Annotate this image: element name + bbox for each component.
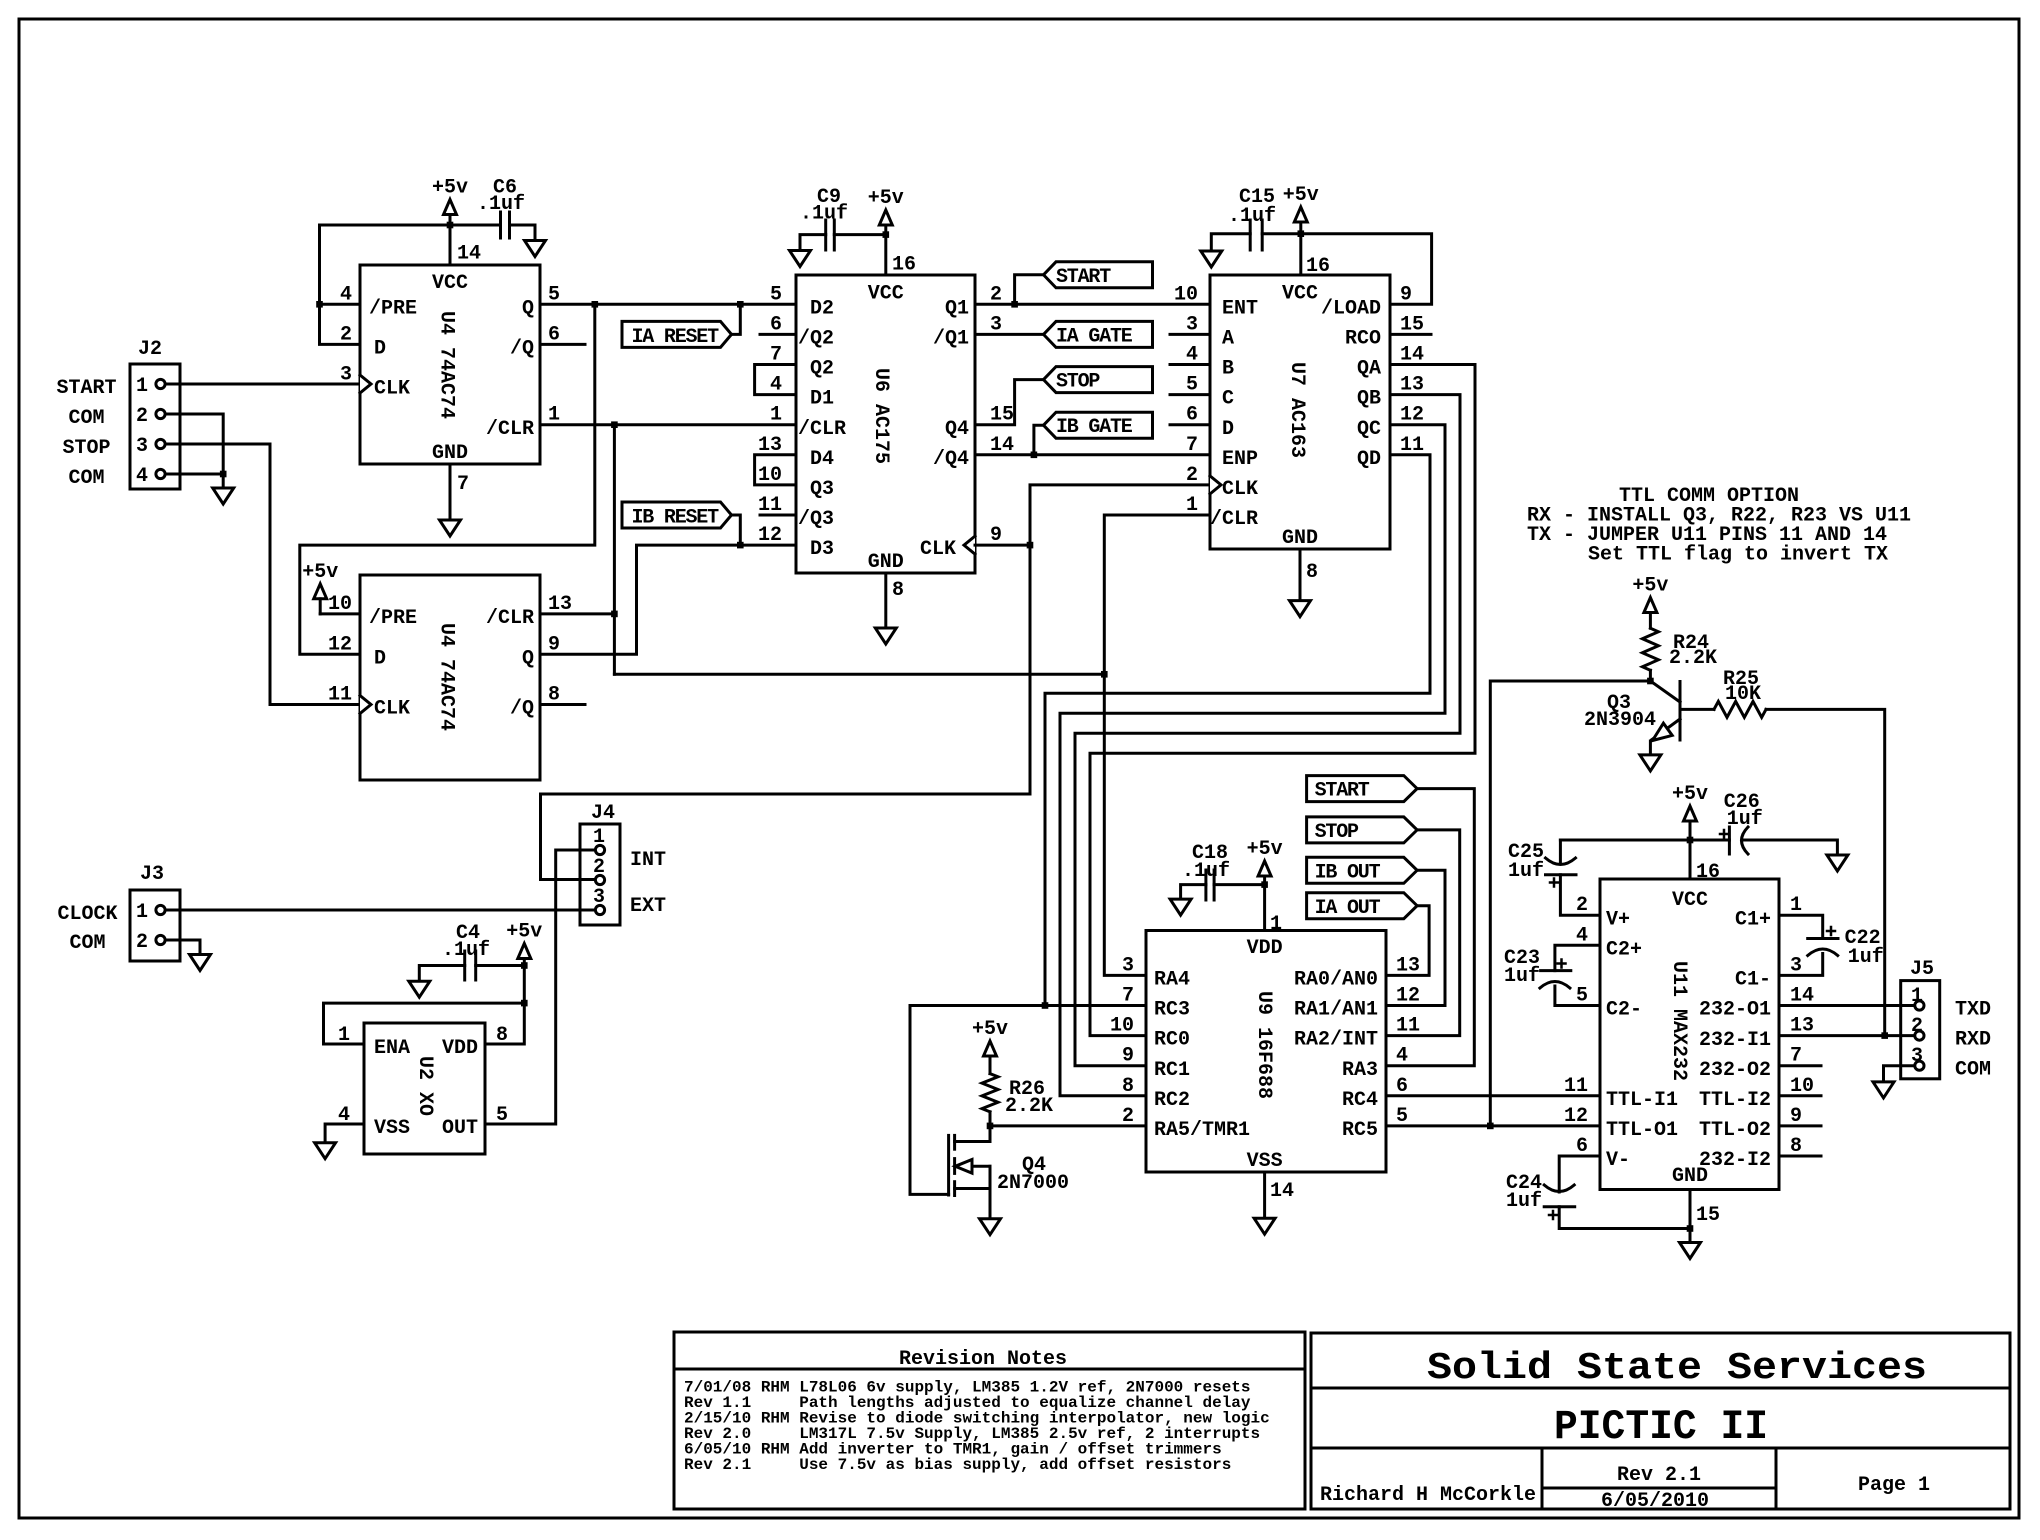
svg-text:VCC: VCC bbox=[1282, 282, 1318, 305]
ground J2 COM bbox=[222, 474, 225, 488]
connector J3 bbox=[130, 890, 180, 961]
svg-text:14: 14 bbox=[457, 243, 481, 266]
svg-text:COM: COM bbox=[69, 932, 105, 955]
ground U9 VSS pin14 bbox=[1263, 1172, 1266, 1218]
svg-text:8: 8 bbox=[1306, 561, 1318, 584]
svg-text:/Q: /Q bbox=[510, 698, 534, 721]
svg-text:IA RESET: IA RESET bbox=[632, 326, 720, 349]
transistor Q3 2N3904 bbox=[1679, 682, 1682, 741]
svg-text:QC: QC bbox=[1357, 418, 1381, 441]
connector J2 bbox=[130, 364, 180, 489]
node +5v C6 junction bbox=[447, 222, 454, 229]
power +5v U11 bbox=[1684, 806, 1697, 821]
svg-text:+5v: +5v bbox=[1283, 184, 1319, 207]
wire U7 B stub bbox=[1170, 363, 1210, 366]
title block bbox=[1311, 1333, 2010, 1509]
node RA5 junction bbox=[987, 1123, 994, 1130]
power +5v U4b /PRE bbox=[314, 584, 327, 599]
svg-text:D4: D4 bbox=[810, 448, 834, 471]
svg-text:RA0/AN0: RA0/AN0 bbox=[1294, 969, 1378, 992]
svg-text:RC2: RC2 bbox=[1154, 1089, 1190, 1112]
svg-text:U4 74AC74: U4 74AC74 bbox=[435, 623, 458, 731]
node U11 VCC junction bbox=[1687, 837, 1694, 844]
node U2 power split bbox=[521, 1000, 528, 1007]
ground C6 bbox=[525, 241, 546, 257]
wire U4a /Q stub bbox=[540, 343, 585, 346]
wire RA5 to U9 bbox=[990, 1124, 1146, 1127]
transistor Q4 2N7000 bbox=[989, 1126, 992, 1142]
resistor R24 bbox=[1644, 598, 1657, 613]
node U6 VCC junction bbox=[883, 231, 890, 238]
svg-text:VCC: VCC bbox=[1672, 889, 1708, 912]
ground Q3 emitter bbox=[1640, 755, 1661, 771]
svg-text:/PRE: /PRE bbox=[369, 607, 417, 630]
svg-text:3: 3 bbox=[136, 435, 148, 458]
ground U6 GND pin8 bbox=[884, 573, 887, 628]
svg-text:.1uf: .1uf bbox=[1228, 205, 1276, 228]
IC U7 AC163 box bbox=[1210, 275, 1390, 549]
capacitor C26 bbox=[1728, 827, 1731, 854]
svg-text:V-: V- bbox=[1606, 1149, 1630, 1172]
svg-text:12: 12 bbox=[1564, 1105, 1588, 1128]
svg-text:IB GATE: IB GATE bbox=[1056, 416, 1133, 439]
svg-text:START: START bbox=[1056, 266, 1111, 289]
wire U11 TTL-O2 stub bbox=[1779, 1124, 1821, 1127]
wire U6 Q2-D1 loop bbox=[755, 365, 796, 395]
svg-text:C1-: C1- bbox=[1735, 969, 1771, 992]
capacitor C22 bbox=[1779, 915, 1823, 938]
svg-text:10: 10 bbox=[1174, 283, 1198, 306]
power +5v U7 bbox=[1294, 207, 1307, 222]
wire 232-I1 to J5 RXD bbox=[1779, 1034, 1914, 1037]
svg-text:5: 5 bbox=[770, 283, 782, 306]
svg-text:/Q: /Q bbox=[510, 338, 534, 361]
svg-text:ENT: ENT bbox=[1222, 297, 1258, 320]
wire U7 RCO stub bbox=[1390, 333, 1431, 336]
svg-text:+5v: +5v bbox=[1672, 783, 1708, 806]
svg-text:+5v: +5v bbox=[302, 561, 338, 584]
node C4 junction bbox=[521, 962, 528, 969]
wire U7 D stub bbox=[1170, 423, 1210, 426]
svg-text:QB: QB bbox=[1357, 388, 1381, 411]
wire 232-O1 to J5 TXD bbox=[1779, 1004, 1914, 1007]
ground C15 bbox=[1201, 251, 1222, 267]
capacitor C4 bbox=[476, 964, 525, 967]
svg-text:J3: J3 bbox=[140, 863, 164, 886]
svg-text:STOP: STOP bbox=[1315, 821, 1359, 844]
wire +5v to /PRE and D bbox=[320, 225, 451, 344]
wire U4a Q to U6 D2 bbox=[540, 303, 796, 306]
wire U6 /Q2 stub bbox=[760, 333, 796, 336]
wire U11 VCC pin16 bbox=[1689, 840, 1692, 879]
svg-text:B: B bbox=[1222, 358, 1234, 381]
flag IA GATE bbox=[1044, 321, 1153, 347]
wire VCC rail bbox=[1560, 839, 1729, 842]
svg-text:.1uf: .1uf bbox=[442, 939, 490, 962]
svg-text:IB OUT: IB OUT bbox=[1315, 861, 1381, 884]
svg-text:Revision Notes: Revision Notes bbox=[899, 1348, 1067, 1371]
svg-text:1uf: 1uf bbox=[1727, 808, 1763, 831]
svg-text:CLK: CLK bbox=[374, 378, 410, 401]
node /CLR chain tap bbox=[611, 421, 618, 428]
svg-text:RXD: RXD bbox=[1955, 1029, 1991, 1052]
svg-text:Richard H McCorkle: Richard H McCorkle bbox=[1320, 1484, 1536, 1507]
svg-text:1uf: 1uf bbox=[1508, 860, 1544, 883]
svg-text:10K: 10K bbox=[1725, 683, 1761, 706]
svg-text:C2+: C2+ bbox=[1606, 939, 1642, 962]
svg-text:2: 2 bbox=[1186, 464, 1198, 487]
svg-text:J5: J5 bbox=[1910, 958, 1934, 981]
flag IB RESET bbox=[622, 502, 732, 528]
svg-text:U7 AC163: U7 AC163 bbox=[1285, 362, 1308, 458]
svg-text:/Q2: /Q2 bbox=[798, 328, 834, 351]
node Q net to D net bbox=[592, 301, 599, 308]
wire to U2 ENA bbox=[324, 1003, 525, 1044]
wire U7 QD to U9 RC3 bbox=[1045, 455, 1430, 1006]
ground J5 COM bbox=[1873, 1082, 1894, 1098]
wire RC5 to TTL-O1 bbox=[1386, 1124, 1600, 1127]
wire U7 VCC pin16 bbox=[1299, 234, 1302, 275]
svg-text:Q3: Q3 bbox=[810, 478, 834, 501]
svg-text:+5v: +5v bbox=[1247, 838, 1283, 861]
wire U7 QB to U9 RC1 bbox=[1075, 395, 1460, 1066]
svg-text:Rev 2.1 Use 7.5v as bias s: Rev 2.1 Use 7.5v as bias supply, add off… bbox=[684, 1456, 1231, 1474]
flag START out bbox=[1307, 776, 1418, 802]
wire to U2 VDD bbox=[485, 1003, 524, 1044]
svg-text:/CLR: /CLR bbox=[486, 607, 534, 630]
svg-text:2: 2 bbox=[136, 405, 148, 428]
svg-text:PICTIC II: PICTIC II bbox=[1554, 1403, 1768, 1451]
wire J2-4 COM bbox=[166, 473, 224, 476]
power +5v U6 bbox=[879, 210, 892, 225]
ground C26 bbox=[1827, 855, 1848, 871]
wire to U4b /CLR bbox=[540, 612, 614, 615]
wire U6 Q1 to U7 ENT bbox=[975, 303, 1210, 306]
svg-text:INT: INT bbox=[630, 849, 666, 872]
svg-text:15: 15 bbox=[1696, 1204, 1720, 1227]
ground U2 VSS bbox=[325, 1124, 364, 1143]
svg-text:Q2: Q2 bbox=[810, 358, 834, 381]
node U9 VDD junction bbox=[1261, 881, 1268, 888]
connector J5 bbox=[1901, 981, 1940, 1079]
wire RC3 to Q4 gate bbox=[910, 1006, 1146, 1195]
svg-text:ENP: ENP bbox=[1222, 448, 1258, 471]
svg-text:+5v: +5v bbox=[1632, 575, 1668, 598]
wire CLK to J4 pin2 bbox=[541, 545, 1031, 879]
svg-text:Set TTL flag to invert TX: Set TTL flag to invert TX bbox=[1588, 544, 1888, 567]
svg-text:RCO: RCO bbox=[1345, 328, 1381, 351]
svg-text:1uf: 1uf bbox=[1506, 1190, 1542, 1213]
ground C9 bbox=[790, 251, 811, 267]
svg-text:/CLR: /CLR bbox=[1210, 508, 1258, 531]
svg-text:D: D bbox=[1222, 418, 1234, 441]
svg-text:/Q1: /Q1 bbox=[933, 328, 969, 351]
IC U6 AC175 box bbox=[796, 275, 975, 573]
svg-text:RC3: RC3 bbox=[1154, 999, 1190, 1022]
wire U7 QA to U9 RC0 bbox=[1090, 365, 1475, 1036]
wire R25 to RXD net bbox=[1766, 709, 1885, 1035]
svg-text:VDD: VDD bbox=[442, 1037, 478, 1060]
node RXD junction bbox=[1881, 1032, 1888, 1039]
wire Q3 collector to RC5 net bbox=[1490, 681, 1650, 1126]
svg-text:/CLR: /CLR bbox=[486, 418, 534, 441]
wire U6 CLK net bbox=[975, 544, 1030, 547]
wire U4b /Q stub bbox=[540, 703, 585, 706]
svg-text:7: 7 bbox=[457, 473, 469, 496]
svg-text:1: 1 bbox=[338, 1024, 350, 1047]
svg-text:1: 1 bbox=[136, 375, 148, 398]
svg-text:OUT: OUT bbox=[442, 1117, 478, 1140]
svg-text:C1+: C1+ bbox=[1735, 908, 1771, 931]
node /PRE tap bbox=[316, 301, 323, 308]
svg-text:10: 10 bbox=[1110, 1015, 1134, 1038]
IC U2 XO box bbox=[364, 1023, 485, 1154]
svg-text:VSS: VSS bbox=[374, 1117, 410, 1140]
node IA RESET tap bbox=[737, 301, 744, 308]
svg-text:1: 1 bbox=[770, 404, 782, 427]
svg-text:1uf: 1uf bbox=[1848, 946, 1884, 969]
ground C18 bbox=[1170, 899, 1191, 915]
svg-text:RC1: RC1 bbox=[1154, 1059, 1190, 1082]
svg-text:/Q3: /Q3 bbox=[798, 508, 834, 531]
svg-text:RA2/INT: RA2/INT bbox=[1294, 1029, 1378, 1052]
svg-text:V+: V+ bbox=[1606, 908, 1630, 931]
svg-text:+5v: +5v bbox=[868, 187, 904, 210]
IC U4a 74AC74 box bbox=[360, 265, 540, 464]
svg-text:.1uf: .1uf bbox=[477, 193, 525, 216]
ground U11 GND pin15 bbox=[1689, 1190, 1692, 1243]
wire U7 /LOAD to +5v bbox=[1301, 234, 1432, 305]
wire +5v to U2 bbox=[523, 966, 526, 1004]
svg-text:C: C bbox=[1222, 388, 1234, 411]
wire CLK to U7 CLK bbox=[1030, 485, 1210, 545]
IC U4b 74AC74 box bbox=[360, 575, 540, 780]
svg-text:TTL-I2: TTL-I2 bbox=[1699, 1089, 1771, 1112]
svg-text:232-O1: 232-O1 bbox=[1699, 999, 1771, 1022]
svg-text:J4: J4 bbox=[591, 802, 615, 825]
svg-text:2: 2 bbox=[136, 931, 148, 954]
capacitor C9 bbox=[834, 233, 886, 236]
wire U11 232-O2 stub bbox=[1779, 1064, 1821, 1067]
wire J2-1 to U4 CLK bbox=[166, 383, 361, 386]
svg-text:/LOAD: /LOAD bbox=[1321, 297, 1381, 320]
svg-text:+5v: +5v bbox=[972, 1018, 1008, 1041]
flag IB GATE bbox=[1044, 412, 1153, 438]
svg-text:RC5: RC5 bbox=[1342, 1119, 1378, 1142]
svg-text:D: D bbox=[374, 647, 386, 670]
svg-text:CLK: CLK bbox=[920, 538, 956, 561]
svg-text:STOP: STOP bbox=[62, 437, 110, 460]
svg-text:232-I2: 232-I2 bbox=[1699, 1149, 1771, 1172]
ground U7 GND pin8 bbox=[1299, 549, 1302, 601]
svg-text:16: 16 bbox=[1306, 255, 1330, 278]
wire RC4 to TTL-I1 bbox=[1386, 1094, 1600, 1097]
ground U4a GND pin7 bbox=[449, 464, 452, 520]
svg-text:RC0: RC0 bbox=[1154, 1029, 1190, 1052]
svg-text:A: A bbox=[1222, 328, 1234, 351]
svg-text:VCC: VCC bbox=[432, 272, 468, 295]
svg-text:232-O2: 232-O2 bbox=[1699, 1059, 1771, 1082]
wire /CLR chain U4a to U6 bbox=[540, 423, 796, 426]
svg-text:11: 11 bbox=[328, 684, 352, 707]
node /CLR RA4 junction bbox=[1101, 671, 1108, 678]
connector J4 bbox=[580, 824, 620, 925]
svg-text:TXD: TXD bbox=[1955, 999, 1991, 1022]
svg-text:D2: D2 bbox=[810, 297, 834, 320]
wire J5 COM to ground bbox=[1884, 1066, 1915, 1082]
wire U11 TTL-I2 stub bbox=[1779, 1094, 1821, 1097]
svg-text:CLK: CLK bbox=[374, 698, 410, 721]
svg-text:IA OUT: IA OUT bbox=[1315, 897, 1381, 920]
flag START bbox=[1044, 262, 1153, 288]
svg-text:D3: D3 bbox=[810, 538, 834, 561]
wire +5v to VCC pin14 bbox=[449, 225, 452, 265]
svg-text:1: 1 bbox=[1270, 913, 1282, 936]
svg-text:2N3904: 2N3904 bbox=[1584, 709, 1656, 732]
node U6 CLK junction bbox=[1027, 542, 1034, 549]
flag STOP bbox=[1044, 367, 1153, 393]
svg-text:COM: COM bbox=[68, 407, 104, 430]
svg-text:QA: QA bbox=[1357, 358, 1381, 381]
flag IA RESET bbox=[622, 321, 732, 347]
ground C4 bbox=[409, 981, 430, 997]
svg-text:CLK: CLK bbox=[1222, 478, 1258, 501]
wire U7 QC to U9 RC2 bbox=[1060, 425, 1445, 1096]
svg-text:8: 8 bbox=[1122, 1075, 1134, 1098]
svg-text:TTL-O2: TTL-O2 bbox=[1699, 1119, 1771, 1142]
svg-text:CLOCK: CLOCK bbox=[57, 903, 117, 926]
svg-text:8: 8 bbox=[892, 579, 904, 602]
wire U2 OUT to J4 INT bbox=[485, 850, 595, 1124]
svg-text:ENA: ENA bbox=[374, 1037, 410, 1060]
svg-text:STOP: STOP bbox=[1056, 371, 1100, 394]
svg-text:U6 AC175: U6 AC175 bbox=[869, 368, 892, 464]
svg-text:GND: GND bbox=[1282, 527, 1318, 550]
node Q3 collector junction bbox=[1647, 678, 1654, 685]
wire Q net to U4b D bbox=[300, 304, 595, 654]
svg-text:9: 9 bbox=[1122, 1045, 1134, 1068]
svg-text:2.2K: 2.2K bbox=[1669, 647, 1717, 670]
svg-text:RA3: RA3 bbox=[1342, 1059, 1378, 1082]
svg-text:U2 XO: U2 XO bbox=[413, 1056, 436, 1116]
svg-text:11: 11 bbox=[1564, 1075, 1588, 1098]
wire J2-2 COM bbox=[166, 414, 224, 474]
svg-text:6/05/2010: 6/05/2010 bbox=[1601, 1490, 1709, 1513]
svg-text:16: 16 bbox=[892, 254, 916, 277]
power +5v U2 bbox=[518, 944, 531, 959]
svg-text:12: 12 bbox=[758, 524, 782, 547]
wire U7 /CLR to U9 RA4 bbox=[1104, 515, 1210, 975]
node START tap bbox=[1011, 301, 1018, 308]
svg-text:START: START bbox=[56, 377, 116, 400]
svg-text:RA4: RA4 bbox=[1154, 969, 1190, 992]
svg-text:1: 1 bbox=[136, 901, 148, 924]
resistor R25 bbox=[1680, 708, 1714, 711]
svg-text:7: 7 bbox=[1186, 434, 1198, 457]
svg-text:13: 13 bbox=[548, 593, 572, 616]
svg-text:GND: GND bbox=[432, 442, 468, 465]
wire /CLR vertical bbox=[613, 425, 616, 675]
svg-text:TTL-O1: TTL-O1 bbox=[1606, 1119, 1678, 1142]
svg-text:/CLR: /CLR bbox=[798, 418, 846, 441]
svg-text:RA1/AN1: RA1/AN1 bbox=[1294, 999, 1378, 1022]
svg-text:3: 3 bbox=[340, 364, 352, 387]
svg-text:U9 16F688: U9 16F688 bbox=[1252, 991, 1275, 1099]
flag IB OUT bbox=[1307, 857, 1418, 883]
svg-text:+5v: +5v bbox=[506, 921, 542, 944]
node U11 GND junction bbox=[1687, 1225, 1694, 1232]
svg-text:COM: COM bbox=[1955, 1059, 1991, 1082]
svg-text:EXT: EXT bbox=[630, 895, 666, 918]
IC U9 16F688 box bbox=[1146, 931, 1386, 1173]
capacitor C15 bbox=[1262, 232, 1301, 235]
svg-text:J2: J2 bbox=[138, 338, 162, 361]
svg-text:VDD: VDD bbox=[1247, 937, 1283, 960]
flag IA OUT bbox=[1307, 893, 1418, 919]
svg-text:Solid State Services: Solid State Services bbox=[1427, 1347, 1927, 1390]
svg-text:14: 14 bbox=[1270, 1180, 1294, 1203]
svg-text:IB RESET: IB RESET bbox=[632, 507, 720, 530]
power +5v U9 bbox=[1258, 861, 1271, 876]
svg-text:RA5/TMR1: RA5/TMR1 bbox=[1154, 1119, 1250, 1142]
svg-text:GND: GND bbox=[868, 551, 904, 574]
capacitor C25 bbox=[1559, 840, 1562, 864]
power +5v U4a bbox=[444, 200, 457, 215]
wire U6 /Q3 stub bbox=[760, 514, 796, 517]
svg-text:.1uf: .1uf bbox=[1182, 860, 1230, 883]
svg-text:8: 8 bbox=[496, 1024, 508, 1047]
wire U4b Q to U6 D3 bbox=[540, 545, 796, 654]
svg-text:Q1: Q1 bbox=[945, 297, 969, 320]
flag STOP out bbox=[1307, 817, 1418, 843]
svg-text:START: START bbox=[1315, 780, 1370, 803]
node U7 VCC junction bbox=[1298, 230, 1305, 237]
wire /CLR chain east bbox=[614, 673, 1104, 676]
svg-text:RC4: RC4 bbox=[1342, 1089, 1378, 1112]
ground J3-2 bbox=[166, 940, 201, 955]
wire J2-3 STOP to U4 CLK11 bbox=[166, 444, 361, 705]
wire J3-1 CLOCK to J4 EXT bbox=[166, 909, 595, 912]
svg-text:Q: Q bbox=[522, 647, 534, 670]
ground Q4 source bbox=[980, 1219, 1001, 1235]
svg-text:COM: COM bbox=[68, 467, 104, 490]
wire U7 A stub bbox=[1170, 333, 1210, 336]
capacitor C23 bbox=[1555, 945, 1600, 970]
svg-text:Q4: Q4 bbox=[945, 418, 969, 441]
svg-text:U4 74AC74: U4 74AC74 bbox=[435, 311, 458, 419]
capacitor C24 bbox=[1559, 1156, 1600, 1192]
svg-text:.1uf: .1uf bbox=[800, 203, 848, 226]
svg-text:D1: D1 bbox=[810, 388, 834, 411]
node U4b /CLR tee bbox=[611, 611, 618, 618]
svg-text:C2-: C2- bbox=[1606, 999, 1642, 1022]
wire U6 VCC pin16 bbox=[884, 235, 887, 275]
resistor R26 bbox=[984, 1041, 997, 1056]
wire U6 /Q4 to U7 ENP bbox=[975, 453, 1210, 456]
svg-text:QD: QD bbox=[1357, 448, 1381, 471]
svg-text:VCC: VCC bbox=[868, 282, 904, 305]
node RC3 QD junction bbox=[1042, 1002, 1049, 1009]
svg-text:4: 4 bbox=[136, 465, 148, 488]
wire U7 C stub bbox=[1170, 393, 1210, 396]
svg-text:IA GATE: IA GATE bbox=[1056, 326, 1133, 349]
svg-text:Q: Q bbox=[522, 297, 534, 320]
svg-text:232-I1: 232-I1 bbox=[1699, 1029, 1771, 1052]
svg-text:2.2K: 2.2K bbox=[1005, 1095, 1053, 1118]
node RC5 Q3 tap bbox=[1487, 1123, 1494, 1130]
IC U11 MAX232 box bbox=[1600, 879, 1779, 1190]
svg-text:D: D bbox=[374, 338, 386, 361]
